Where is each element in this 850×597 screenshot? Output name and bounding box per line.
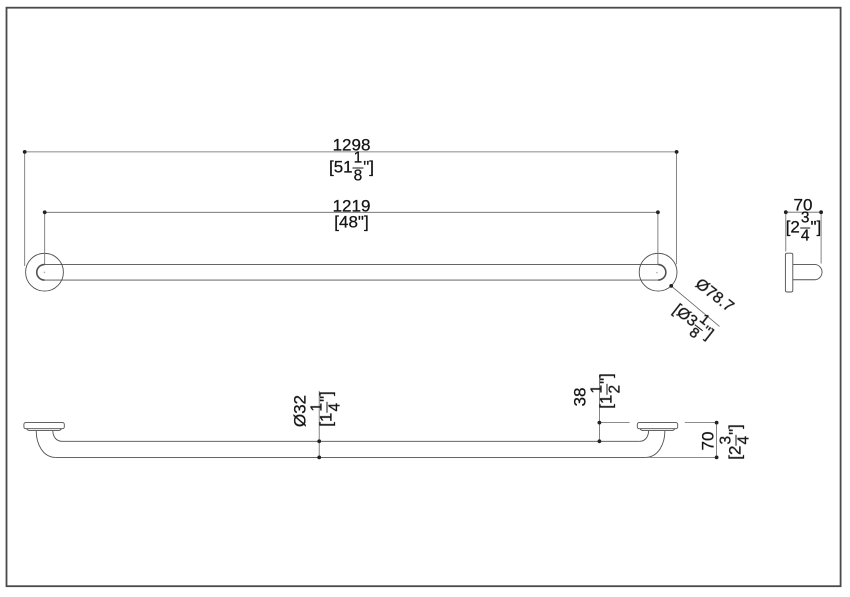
dimension 70 (plate to bar bottom, plan) — [645, 423, 717, 458]
label Ø78.7 — [692, 276, 736, 315]
dimension 70 (side view) — [786, 212, 821, 263]
right flange circle — [639, 253, 677, 291]
wall plate — [785, 253, 792, 292]
label [Ø3 1/8"] — [666, 295, 721, 348]
right bar end cap — [658, 265, 666, 281]
label 1219 — [333, 197, 371, 214]
bar bottom edge (plan) — [56, 456, 645, 458]
label [51 1/8"] — [329, 151, 374, 184]
right flange center mark — [656, 272, 658, 274]
left plate lip — [27, 429, 62, 431]
label [1 1/4"] — [310, 391, 343, 427]
bar top edge — [45, 264, 659, 266]
dimension 38 (plate to bar top) — [599, 375, 629, 442]
bar top edge (plan) — [62, 440, 640, 442]
bar bottom edge — [45, 279, 659, 281]
label Ø32 — [292, 394, 309, 426]
left bar end cap — [37, 265, 45, 281]
leader for flange diameter — [671, 286, 719, 327]
left flange circle — [26, 253, 64, 291]
label 38 — [571, 387, 588, 406]
left wall plate — [24, 423, 64, 429]
dimension 1298 — [25, 152, 677, 266]
label 70 (side view) — [794, 196, 813, 213]
left bend inner edge — [53, 431, 62, 442]
right plate lip — [640, 429, 675, 431]
dimension Ø32 (bar diameter) — [318, 391, 320, 458]
left flange center mark — [44, 272, 46, 274]
left bend outer edge — [36, 431, 56, 458]
label [2 3/4"] (plan) — [719, 425, 752, 461]
bar stub — [793, 264, 822, 279]
label [2 3/4"] (side view) — [786, 211, 822, 244]
label 70 (plan) — [700, 431, 717, 450]
right bend outer edge — [645, 431, 665, 458]
label 1298 — [333, 136, 371, 153]
right wall plate — [637, 423, 677, 429]
dimension 1219 — [45, 212, 658, 264]
label [48"] — [334, 214, 368, 231]
label [1 1/2"] — [589, 373, 622, 409]
right bend inner edge — [640, 431, 649, 442]
